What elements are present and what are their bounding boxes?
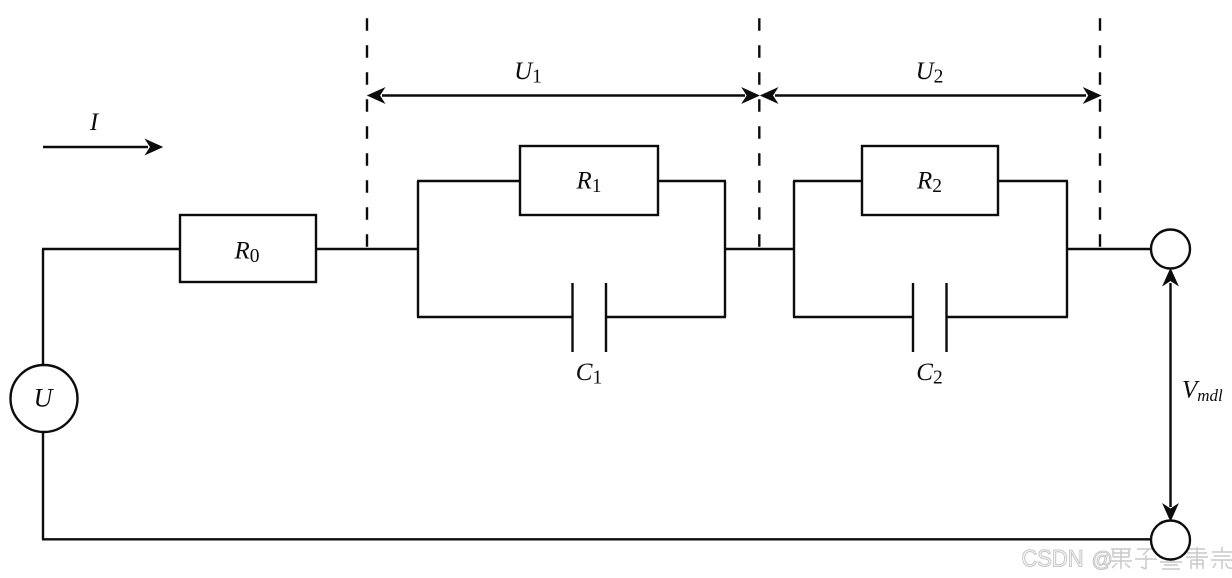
wire: RC1 top branch right (658, 180, 726, 182)
wire: top rail from left corner to R0 (42, 248, 180, 250)
voltage annotation arrow U2 (double headed) (761, 88, 1100, 103)
node: negative output terminal (1151, 521, 1190, 560)
wire: RC2 right leg (1066, 181, 1068, 317)
voltage annotation arrow Vmdl (double headed vertical) (1163, 269, 1178, 521)
node: positive output terminal (1151, 230, 1190, 269)
wire: RC2 top branch right (998, 180, 1068, 182)
section boundary dashed line 3 (1099, 18, 1101, 248)
svg-text:@: @ (1092, 549, 1113, 572)
watermark CJK text 栗子要养老 (1110, 547, 1232, 569)
wire: left vertical from source U down to bottom rail (42, 432, 44, 539)
wire: R0 to first RC section (316, 248, 419, 250)
svg-text:CSDN: CSDN (1022, 546, 1084, 573)
wire: RC1 top branch left (417, 180, 520, 182)
wire: RC2 bottom branch right (947, 316, 1069, 318)
voltage annotation arrow U1 (double headed) (368, 88, 759, 103)
capacitor C2 (913, 283, 947, 352)
wire: RC1 bottom branch right (606, 316, 726, 318)
wire: RC1 bottom branch left (417, 316, 573, 318)
voltage source U (11, 365, 78, 432)
resistor R0 (180, 215, 316, 282)
wire: left vertical from top node down to source U (42, 249, 44, 365)
wire: RC2 top branch left (793, 180, 862, 182)
wire: RC2 left leg (793, 181, 795, 317)
current arrow I (43, 140, 162, 155)
resistor R1 (520, 146, 658, 215)
wire: RC1 right leg (724, 181, 726, 317)
svg-text:U: U (34, 384, 55, 413)
node A: junction wire joining RC1 left leg (417, 181, 419, 317)
wire: RC2 bottom branch left (793, 316, 913, 318)
wire: RC2 to positive terminal (1067, 248, 1151, 250)
section boundary dashed line 1 (366, 18, 368, 248)
resistor R2 (862, 146, 998, 215)
wire: bottom return rail (42, 538, 1152, 540)
capacitor C1 (573, 283, 607, 352)
section boundary dashed line 2 (758, 18, 760, 248)
wire: RC1 to RC2 (725, 248, 794, 250)
